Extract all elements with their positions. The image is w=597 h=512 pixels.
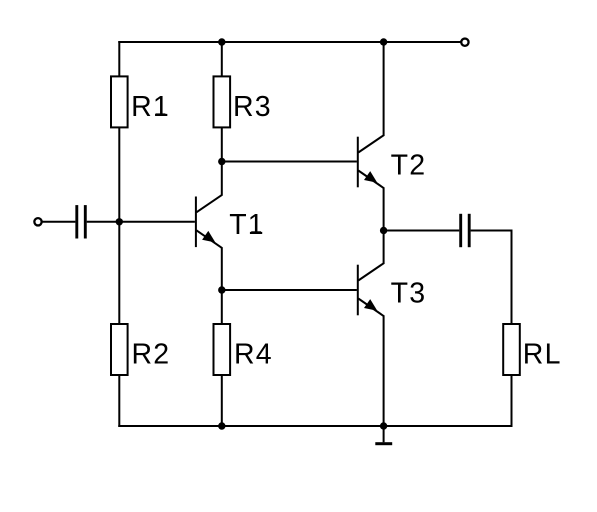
svg-text:R1: R1 <box>131 91 170 123</box>
wire R4 bottom lead <box>221 375 223 426</box>
wire RL bottom to bottom rail <box>510 375 512 426</box>
transistor T2 <box>358 135 384 189</box>
wire T1 emitter to node B <box>221 248 223 290</box>
junction ground node (bottom rail / T3 emitter) <box>380 422 387 429</box>
resistor R4 <box>214 324 231 375</box>
junction top rail / T2 collector <box>380 38 387 45</box>
svg-text:T3: T3 <box>391 277 427 309</box>
junction output node (T2 emitter / T3 collector / C-out) <box>380 227 387 234</box>
resistor R1 <box>111 76 128 127</box>
wire node B to R4 top <box>221 290 223 325</box>
svg-text:R4: R4 <box>234 339 273 371</box>
resistor R2 <box>111 324 128 375</box>
junction input node <box>116 218 123 225</box>
wire R3 top lead <box>221 41 223 77</box>
transistor T3 <box>358 263 384 317</box>
svg-text:T1: T1 <box>229 209 265 241</box>
wire T2 collector to top rail <box>383 42 385 136</box>
wire top supply rail <box>118 41 461 43</box>
wire R1 top lead <box>118 41 120 77</box>
wire R1 bottom to R2 top (left branch) <box>118 127 120 324</box>
resistor RL <box>503 324 520 375</box>
wire capacitor to T1 base <box>87 221 195 223</box>
wire T1 collector to node A <box>221 162 223 195</box>
wire R2 bottom lead <box>118 375 120 427</box>
terminal input (open circle, left) <box>34 218 41 225</box>
svg-text:T2: T2 <box>391 149 427 181</box>
wire bottom rail <box>118 425 512 427</box>
junction top rail / R3 <box>218 38 225 45</box>
transistor T1 <box>196 195 222 249</box>
wire capacitor to RL top <box>471 231 512 325</box>
terminal supply (open circle, top right) <box>461 39 468 46</box>
wire node B to T3 base <box>222 289 357 291</box>
svg-text:RL: RL <box>523 339 562 371</box>
svg-text:R3: R3 <box>233 91 272 123</box>
svg-text:R2: R2 <box>132 339 171 371</box>
junction node A (R3 / T1 collector / T2 base) <box>218 158 225 165</box>
junction node B (T1 emitter / R4 / T3 base) <box>218 286 225 293</box>
wire R3 bottom to node A <box>221 127 223 161</box>
ground <box>375 426 392 445</box>
capacitor C-out <box>461 214 470 247</box>
wire input terminal to capacitor <box>42 221 76 223</box>
resistor R3 <box>214 76 231 127</box>
wire T3 collector to output node <box>383 231 385 264</box>
wire T2 emitter to output node <box>383 188 385 231</box>
capacitor C-in <box>77 205 86 238</box>
junction bottom rail / R4 <box>218 422 225 429</box>
wire output node to capacitor <box>384 230 460 232</box>
wire node A to T2 base <box>222 161 357 163</box>
wire T3 emitter to ground node <box>383 316 385 426</box>
